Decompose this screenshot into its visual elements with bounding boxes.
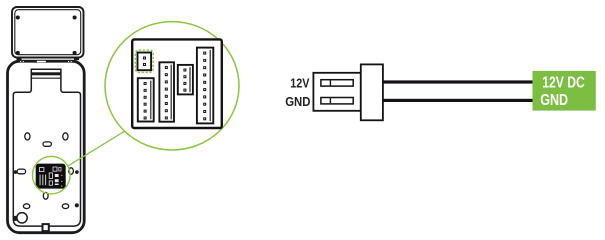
- top bar white dot 4: [71, 61, 72, 62]
- plate screw top-right: [73, 15, 77, 19]
- recessed panel contour: [13, 69, 80, 227]
- right oval hole: [69, 168, 74, 175]
- device back shell: [8, 61, 85, 233]
- bottom oval left: [23, 204, 29, 209]
- connector J2 (6-pin): [138, 78, 154, 121]
- center stadium slot: [43, 142, 51, 146]
- connector J3 (8-pin): [159, 62, 174, 121]
- PCB board: [132, 39, 222, 128]
- plate latch tab right: [74, 58, 79, 60]
- bottom tab square: [43, 224, 49, 231]
- power connector J1 (2-pin): [138, 53, 152, 71]
- label slot thin line: [31, 78, 62, 79]
- bottom-left big circle: [17, 213, 27, 223]
- plug slot 1: [321, 80, 353, 86]
- hole oval right: [63, 133, 68, 140]
- plate latch tab left: [17, 58, 22, 60]
- connector J4 (4-pin): [178, 65, 193, 95]
- bottom oval right: [62, 204, 68, 209]
- plug head: [361, 64, 383, 120]
- plate screw top-left: [16, 15, 20, 19]
- wire 12V: [383, 80, 533, 83]
- right black dot: [75, 170, 79, 174]
- bottom right black dot: [75, 203, 79, 207]
- plug slot 2: [321, 98, 353, 104]
- wire GND: [383, 99, 533, 102]
- svg-text:GND: GND: [285, 94, 310, 109]
- top bar white dot 2: [23, 61, 24, 62]
- mounting plate outer: [12, 7, 84, 58]
- plate screw bottom-right: [73, 51, 77, 55]
- bottom small oval: [43, 192, 48, 199]
- plug body: [313, 73, 360, 111]
- svg-text:GND: GND: [540, 92, 568, 109]
- keyhole left dot: [14, 170, 18, 174]
- top bar white dot 1: [20, 61, 21, 62]
- top bar white dash: [37, 61, 46, 63]
- bottom-left black tab: [13, 216, 17, 221]
- big zoom circle: [105, 22, 239, 150]
- connector J5 (10-pin): [197, 48, 213, 124]
- svg-text:12V DC: 12V DC: [542, 75, 585, 92]
- plate screw bottom-left: [16, 51, 20, 55]
- mounting plate inner: [15, 10, 81, 55]
- svg-text:12V: 12V: [290, 76, 309, 91]
- power source green box: [533, 71, 596, 111]
- green dashed highlight: [135, 50, 153, 72]
- label slot top line: [31, 69, 62, 71]
- hole oval left: [25, 133, 30, 140]
- keyhole left stadium: [17, 169, 26, 174]
- top bar white dot 3: [68, 61, 69, 62]
- zoom leader line: [68, 130, 127, 166]
- label slot thick bar: [31, 72, 62, 75]
- small zoom circle: [33, 156, 71, 194]
- connector block on device: [36, 164, 66, 189]
